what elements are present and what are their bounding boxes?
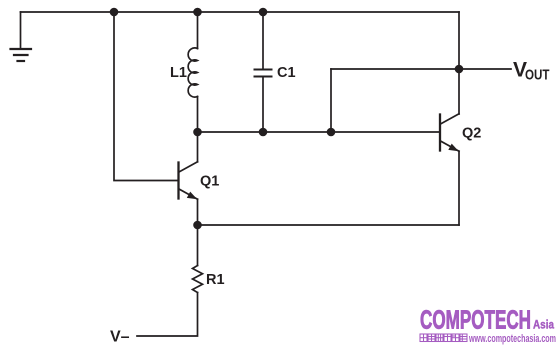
svg-text:L1: L1 (170, 65, 187, 81)
svg-text:R1: R1 (206, 272, 225, 288)
CJK blocks 智慧電子設計 (420, 334, 467, 342)
wire: R1 bottom lead to V- (137, 293, 198, 337)
wire: emitter bus (198, 224, 460, 226)
svg-text:V–: V– (110, 329, 130, 346)
node: tank bottom junction (193, 128, 202, 137)
svg-text:OUT: OUT (525, 67, 550, 84)
wire: Q1 emitter drop (197, 199, 199, 225)
wire: R1 top lead (197, 225, 199, 266)
resistor R1 (193, 266, 203, 293)
node: L1 top junction (193, 8, 202, 17)
wire: top rail (21, 11, 460, 13)
node: emitter junction (193, 221, 202, 230)
Q2 emitter arrow (448, 144, 458, 152)
svg-text:C1: C1 (277, 65, 296, 81)
svg-text:www.compotechasia.com: www.compotechasia.com (468, 333, 556, 345)
wire: right drop from top rail (458, 12, 460, 114)
ground (11, 49, 32, 61)
node: C1 bottom junction (259, 128, 268, 137)
inductor L1 (188, 48, 197, 97)
wire: L1 bottom lead (197, 97, 199, 133)
node: C1 top junction (259, 8, 268, 17)
capacitor C1 (255, 70, 272, 77)
node: top-left junction (110, 8, 119, 17)
wire: ground stub (20, 12, 22, 49)
transistor Q1 (177, 163, 179, 199)
wire: feedback riser (330, 69, 332, 132)
wire: tank rail to Q2 base (198, 131, 441, 133)
wire: C1 top lead (262, 12, 264, 69)
node: feedback junction (327, 128, 336, 137)
wire: Q2 emitter drop (458, 151, 460, 225)
wire: Q1 collector riser (197, 132, 199, 162)
svg-text:Asia: Asia (533, 320, 555, 332)
transistor Q2 (439, 115, 441, 151)
svg-text:Q2: Q2 (462, 126, 481, 142)
wire: C1 bottom lead (262, 77, 264, 132)
wire: left branch to Q1 base (114, 12, 178, 181)
node: output junction (455, 65, 464, 74)
watermark logo COMPOTECH Asia (420, 305, 556, 346)
wire: L1 top lead (197, 12, 199, 49)
svg-text:Q1: Q1 (200, 174, 219, 190)
svg-text:COMPOTECH: COMPOTECH (420, 305, 531, 335)
Q1 emitter arrow (187, 192, 197, 200)
wire: output rail (331, 68, 511, 70)
